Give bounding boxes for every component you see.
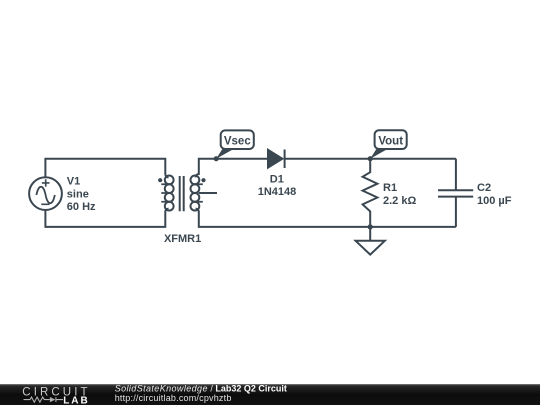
wire diode to C2 (285, 158, 456, 160)
svg-text:D1: D1 (270, 173, 284, 185)
node Vout junction (368, 156, 373, 161)
ground (356, 227, 385, 255)
svg-text:V1: V1 (67, 176, 80, 188)
svg-text:sine: sine (67, 188, 89, 200)
node Vsec junction (214, 156, 219, 161)
transformer XFMR1 (158, 176, 206, 212)
svg-text:http://circuitlab.com/cpvhztb: http://circuitlab.com/cpvhztb (115, 393, 232, 403)
svg-text:C2: C2 (477, 182, 491, 194)
wire center tap stub (199, 192, 217, 194)
footer bar (0, 384, 540, 405)
svg-text:Vsec: Vsec (224, 136, 251, 148)
svg-text:2.2 kΩ: 2.2 kΩ (383, 195, 416, 207)
node Vsec flag (216, 130, 254, 158)
wire top primary loop (45, 159, 168, 178)
svg-text:Vout: Vout (378, 136, 403, 148)
logo doodle wire (24, 397, 64, 402)
wire bottom primary loop (45, 209, 168, 227)
wire secondary top to diode (196, 159, 268, 178)
wire secondary bottom (196, 209, 456, 227)
svg-text:SolidStateKnowledge / Lab32 Q2: SolidStateKnowledge / Lab32 Q2 Circuit (115, 383, 287, 393)
svg-text:R1: R1 (383, 182, 397, 194)
svg-text:XFMR1: XFMR1 (164, 233, 201, 245)
junction R1 bottom (368, 224, 373, 229)
node Vout flag (370, 130, 407, 159)
svg-text:LAB: LAB (63, 395, 90, 405)
capacitor C2 (438, 159, 473, 227)
diode D1 (268, 150, 285, 169)
svg-text:1N4148: 1N4148 (258, 186, 297, 198)
svg-text:60 Hz: 60 Hz (67, 201, 96, 213)
svg-text:100 µF: 100 µF (477, 195, 512, 207)
resistor R1 (363, 159, 378, 227)
voltage source V1 (29, 177, 62, 210)
